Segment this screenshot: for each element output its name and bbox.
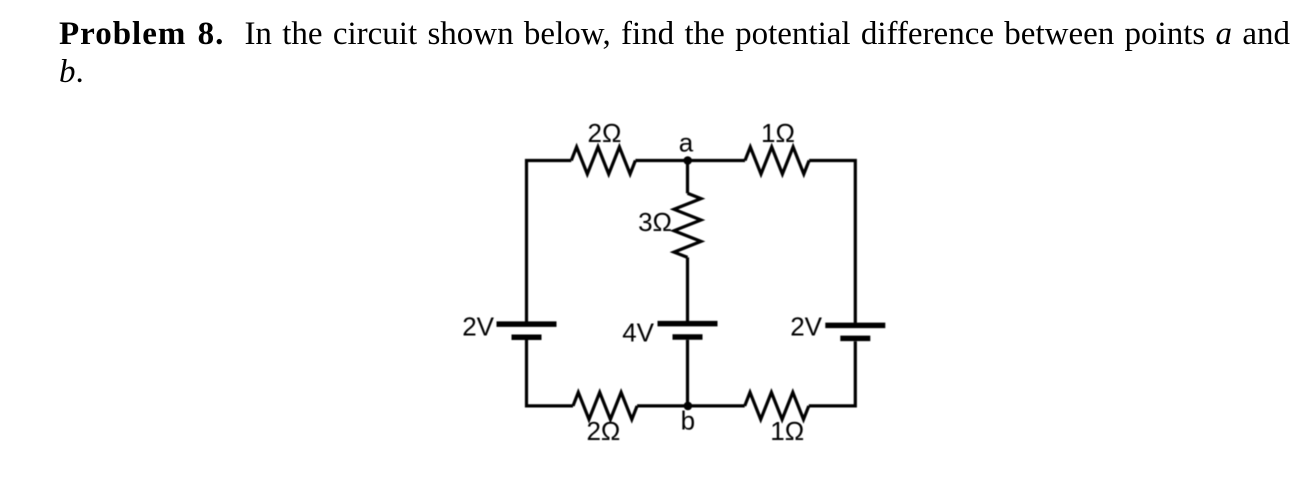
- wire: middle branch between resistor 3&#937; and battery 4V: [686, 257, 689, 321]
- wire: left vertical lower + bottom-left corner: [527, 340, 574, 406]
- svg-text:a: a: [679, 127, 694, 157]
- battery 2V (right) long positive plate: [825, 323, 885, 329]
- svg-text:2Ω: 2Ω: [586, 416, 620, 446]
- resistor 2&#937; (bottom left) zigzag: [573, 392, 637, 419]
- resistor 1&#937; (top right) zigzag: [745, 147, 809, 174]
- resistor 2&#937; (top left) zigzag: [571, 147, 635, 174]
- battery 4V (middle) long positive plate: [658, 321, 718, 327]
- wire: middle branch upper (node a to resistor 3&#937;): [686, 161, 689, 194]
- node b junction dot: [684, 402, 693, 411]
- svg-text:1Ω: 1Ω: [761, 118, 795, 148]
- battery 4V (middle) short negative plate: [673, 334, 703, 340]
- svg-text:3Ω: 3Ω: [638, 207, 672, 237]
- resistor 1&#937; (bottom right) zigzag: [745, 392, 809, 419]
- svg-text:2V: 2V: [462, 311, 494, 341]
- wire: top-left corner (left vertical upper + top-left horizontal): [527, 161, 572, 322]
- svg-text:2V: 2V: [790, 311, 822, 341]
- node a junction dot: [683, 156, 692, 165]
- battery 2V (left) short negative plate: [512, 334, 542, 340]
- wire: middle branch lower (battery 4V to node b): [686, 340, 689, 406]
- wire: top middle (resistor 2&#937; to resistor 1&#937; through node a): [635, 159, 745, 162]
- svg-text:b: b: [681, 406, 695, 436]
- svg-text:4V: 4V: [622, 317, 654, 347]
- battery 2V (left) long positive plate: [497, 321, 557, 327]
- svg-text:1Ω: 1Ω: [770, 416, 804, 446]
- wire: top-right corner (top-right horizontal + right vertical upper): [809, 161, 855, 323]
- battery 2V (right) short negative plate: [840, 336, 870, 342]
- wire: bottom-right corner (bottom-right horizontal + right vertical lower): [809, 341, 856, 406]
- wire: bottom middle (through node b): [637, 404, 745, 407]
- resistor 3&#937; (middle, vertical) zigzag: [674, 193, 701, 257]
- svg-text:2Ω: 2Ω: [588, 118, 622, 148]
